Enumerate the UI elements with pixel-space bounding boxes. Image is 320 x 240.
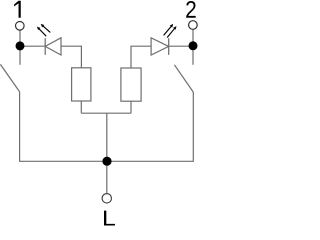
node 2 junction dot (189, 41, 198, 50)
LED D2 emission arrow lower (167, 26, 176, 37)
wire terminal2 to switch S2 fixed contact (192, 29, 194, 65)
LED D1 triangle (45, 38, 61, 55)
wire switch S2 to bus (192, 92, 194, 162)
node L junction dot (102, 157, 111, 166)
LED D2 triangle (151, 38, 169, 55)
terminal 1 circle (15, 22, 24, 31)
wire resistor R1 bottom to bridge (80, 101, 82, 113)
switch S2 blade (174, 65, 193, 92)
resistor R2 (121, 68, 141, 101)
node 1 junction dot (16, 41, 25, 50)
wire switch S1 to bus (19, 92, 21, 162)
LED D1 emission arrow lower (37, 27, 46, 37)
wire LED1 anode to corner (61, 46, 81, 68)
label terminal 1 (14, 1, 21, 18)
wire bridge stem to junction (106, 113, 108, 161)
LED D1 emission arrow upper (41, 24, 51, 33)
terminal L circle (102, 194, 111, 203)
LED D2 emission arrow upper (164, 24, 174, 36)
wire node1 to LED1 cathode (20, 45, 45, 47)
label terminal L (104, 211, 115, 226)
label terminal 2 (186, 1, 196, 18)
wire LED2 cathode to node2 (169, 45, 193, 47)
terminal 2 circle (189, 21, 198, 30)
wire bottom bus (20, 160, 194, 162)
wire bridge between resistors (81, 112, 131, 114)
LED D2 cathode bar (168, 38, 170, 55)
LED D1 cathode bar (44, 38, 46, 55)
wire terminal1 to switch S1 fixed contact (19, 30, 21, 65)
resistor R1 (72, 68, 91, 101)
switch S1 blade (0, 64, 19, 91)
wire corner to LED2 anode (131, 46, 151, 68)
wire resistor R2 bottom to bridge (130, 101, 132, 113)
wire junction to terminal L (106, 161, 108, 194)
